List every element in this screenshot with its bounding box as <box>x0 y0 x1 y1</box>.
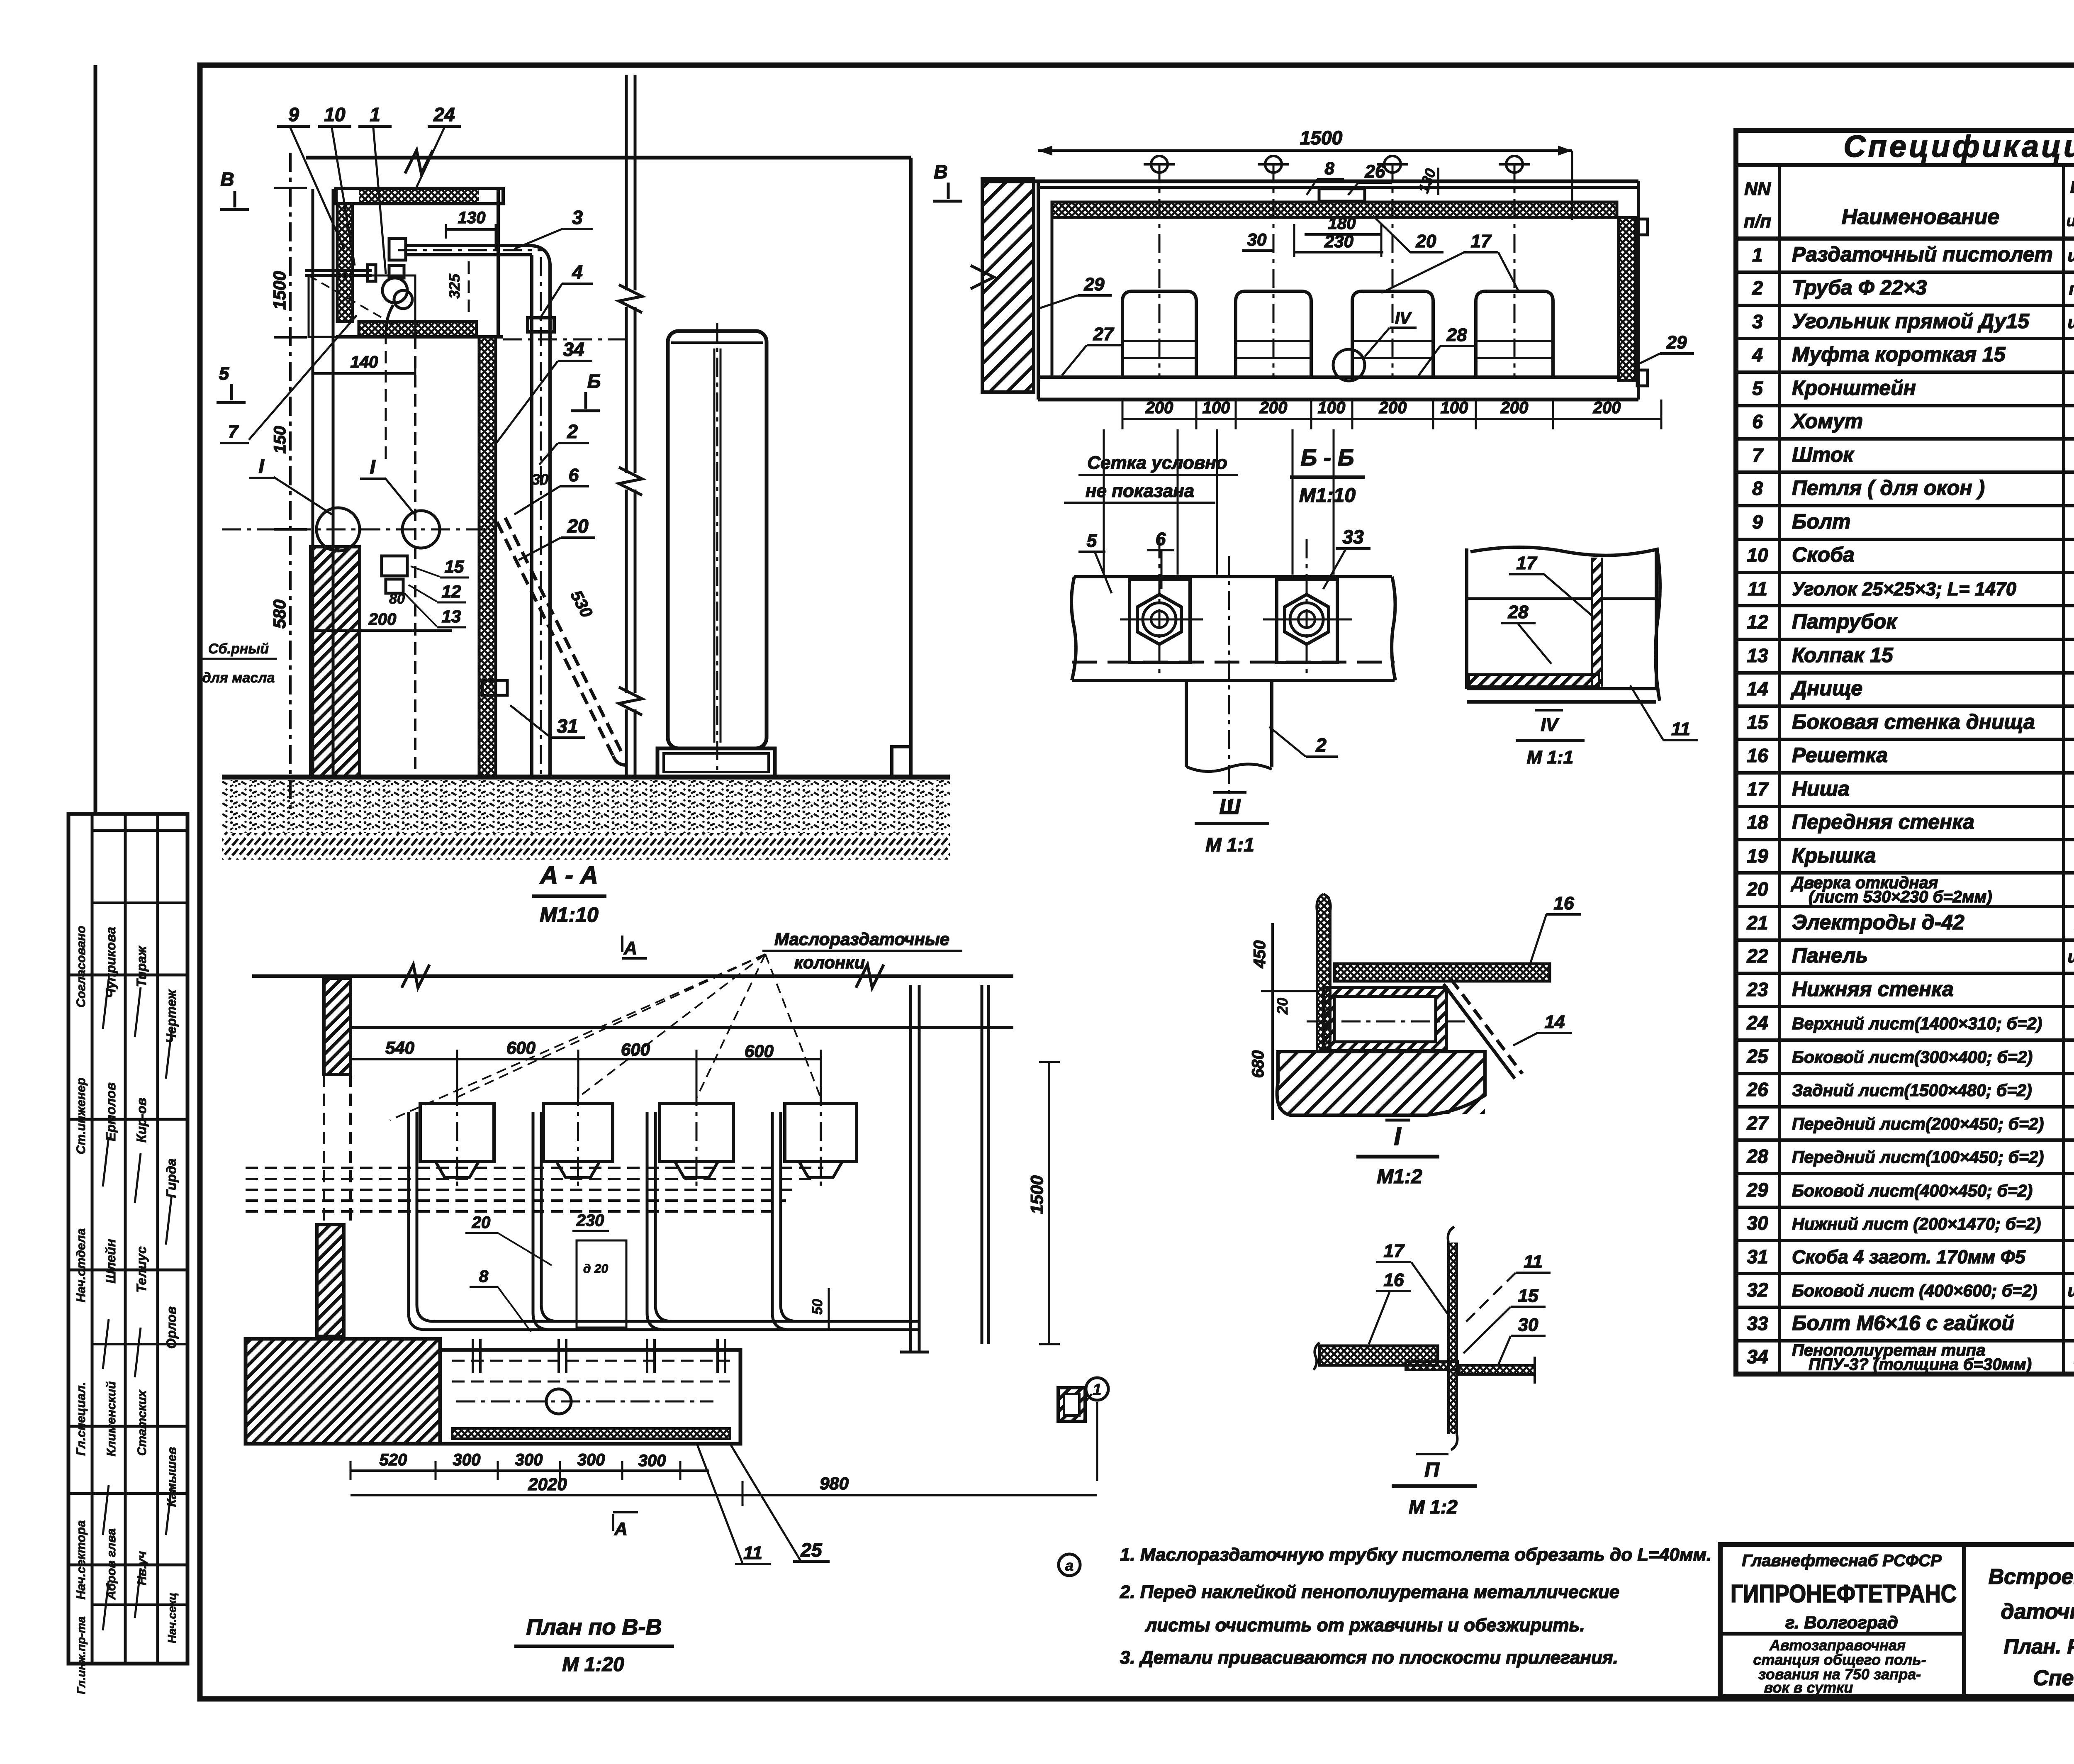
svg-text:Боковой лист (400×600; б=2): Боковой лист (400×600; б=2) <box>1792 1281 2037 1300</box>
A-A top insulated band 24 <box>359 188 479 204</box>
svg-text:NN: NN <box>1744 179 1771 199</box>
hinge detail 8 26 <box>1319 189 1365 201</box>
svg-text:14: 14 <box>1545 1012 1565 1032</box>
svg-text:I: I <box>1394 1122 1402 1151</box>
insulation strip 34 vertical <box>479 337 496 777</box>
svg-text:Нижний лист (200×1470; б=2): Нижний лист (200×1470; б=2) <box>1792 1214 2041 1233</box>
dim 130 <box>446 228 496 231</box>
svg-text:Сб.рный: Сб.рный <box>208 641 269 657</box>
svg-text:Ниша: Ниша <box>1792 777 1850 800</box>
svg-text:300: 300 <box>453 1451 481 1469</box>
svg-text:2. Перед наклейкой пенополиур: 2. Перед наклейкой пенополиуретана метал… <box>1120 1582 1619 1602</box>
svg-text:28: 28 <box>1446 325 1467 345</box>
svg-text:20: 20 <box>1416 231 1436 251</box>
svg-text:Телиус: Телиус <box>134 1246 149 1293</box>
small parts 15 12 13 <box>382 556 407 576</box>
svg-text:изм.: изм. <box>2067 212 2074 230</box>
svg-text:580: 580 <box>270 599 289 629</box>
spec row 28 <box>1736 1172 2074 1175</box>
svg-text:30: 30 <box>1747 1212 1768 1234</box>
svg-text:200: 200 <box>368 610 397 629</box>
plan left pier upper <box>324 978 351 1074</box>
right boundary wall <box>909 158 913 777</box>
title block <box>1720 1545 2074 1697</box>
svg-text:А - А: А - А <box>539 861 598 889</box>
svg-text:9: 9 <box>1752 511 1763 533</box>
spec row 23 <box>1736 1005 2074 1008</box>
svg-text:Нижняя стенка: Нижняя стенка <box>1792 977 1954 1001</box>
svg-text:17: 17 <box>1471 231 1492 251</box>
lower cabinet dashed wall <box>414 337 416 775</box>
svg-text:19: 19 <box>1747 845 1768 867</box>
svg-text:4: 4 <box>1752 344 1763 365</box>
spec row 24 <box>1736 1038 2074 1042</box>
node IV block <box>1470 547 1660 701</box>
rect tube profile <box>1324 987 1446 1051</box>
plan left pier lower <box>317 1225 344 1336</box>
spec row 4 <box>1736 370 2074 374</box>
svg-text:не показана: не показана <box>1086 481 1194 501</box>
ext lines cols <box>456 1070 458 1099</box>
svg-text:шт: шт <box>2068 312 2074 332</box>
A-A niche inner walls <box>351 204 354 322</box>
svg-text:Встроенный маслораз-: Встроенный маслораз- <box>1989 1565 2074 1589</box>
svg-text:Боковой лист(400×450; б=2): Боковой лист(400×450; б=2) <box>1792 1181 2033 1200</box>
svg-text:540: 540 <box>385 1038 414 1057</box>
spec row 18 <box>1736 838 2074 841</box>
svg-text:17: 17 <box>1747 778 1769 800</box>
svg-text:IV: IV <box>1395 309 1412 327</box>
spec row 7 <box>1736 470 2074 474</box>
node circles I <box>316 508 360 551</box>
spec row 10 <box>1736 571 2074 574</box>
svg-text:33: 33 <box>1342 526 1364 548</box>
svg-text:28: 28 <box>1746 1145 1768 1167</box>
svg-text:Гл.инж.пр-та: Гл.инж.пр-та <box>75 1616 88 1694</box>
svg-text:8: 8 <box>1324 158 1334 178</box>
svg-text:21: 21 <box>1746 912 1768 933</box>
svg-text:200: 200 <box>1145 399 1173 417</box>
svg-text:17: 17 <box>1517 553 1538 573</box>
svg-text:27: 27 <box>1746 1112 1769 1134</box>
spec row 25 <box>1736 1072 2074 1075</box>
svg-text:М 1:1: М 1:1 <box>1205 834 1254 855</box>
svg-text:8: 8 <box>1752 478 1763 499</box>
svg-text:300: 300 <box>638 1452 666 1470</box>
elbow fitting left <box>389 239 406 260</box>
soil hatch <box>222 833 950 860</box>
svg-text:Кронштейн: Кронштейн <box>1792 376 1916 400</box>
svg-text:100: 100 <box>1203 399 1230 417</box>
svg-text:Задний лист(1500×480; б=2): Задний лист(1500×480; б=2) <box>1792 1081 2032 1100</box>
svg-text:16: 16 <box>1384 1270 1404 1290</box>
svg-text:листы очистить от ржавчины: листы очистить от ржавчины и обезжирить. <box>1145 1615 1585 1635</box>
svg-text:1500: 1500 <box>270 271 289 309</box>
svg-text:5: 5 <box>219 363 229 384</box>
bottom strip hatched <box>1469 675 1599 687</box>
svg-text:Орлов: Орлов <box>164 1306 179 1349</box>
svg-text:Панель: Панель <box>1792 944 1868 967</box>
B-B top insulation band 20 <box>1052 202 1617 217</box>
svg-text:Передний лист(200×450; б=2): Передний лист(200×450; б=2) <box>1792 1114 2044 1133</box>
B-B right insulation column <box>1619 217 1636 380</box>
svg-text:600: 600 <box>745 1041 774 1061</box>
svg-text:30: 30 <box>1247 230 1267 249</box>
oil columns <box>420 1104 494 1162</box>
svg-text:Маслораздаточные: Маслораздаточные <box>774 929 949 949</box>
specification table <box>1736 130 2074 1374</box>
dim 1500 vertical <box>1048 1062 1050 1344</box>
spec row 9 <box>1736 538 2074 541</box>
spec row 19 <box>1736 871 2074 875</box>
svg-text:300: 300 <box>577 1451 605 1469</box>
svg-text:680: 680 <box>1249 1050 1267 1078</box>
svg-text:15: 15 <box>445 557 464 576</box>
svg-text:29: 29 <box>1746 1179 1768 1201</box>
svg-text:27: 27 <box>1093 324 1115 344</box>
svg-text:Нач.секц: Нач.секц <box>166 1593 178 1643</box>
svg-text:6: 6 <box>1156 529 1166 549</box>
svg-text:г. Волгоград: г. Волгоград <box>1785 1613 1898 1632</box>
node III plate <box>1071 577 1076 680</box>
right wall lines <box>909 985 912 1352</box>
svg-text:Кир-ов: Кир-ов <box>134 1098 149 1143</box>
leader fan <box>457 954 765 1097</box>
svg-text:Болт М6×16 с гайкой: Болт М6×16 с гайкой <box>1792 1311 2014 1335</box>
dim 2020 / 980 <box>351 1494 742 1496</box>
svg-text:Боковая стенка днища: Боковая стенка днища <box>1792 710 2035 733</box>
plan floor slab hatched <box>246 1339 440 1444</box>
svg-text:50: 50 <box>810 1299 825 1315</box>
riser pipes to columns <box>409 1112 425 1330</box>
svg-text:9: 9 <box>288 104 299 125</box>
svg-text:п.м: п.м <box>2069 279 2074 298</box>
svg-text:IV: IV <box>1541 715 1559 735</box>
svg-text:20: 20 <box>472 1213 491 1232</box>
svg-text:13: 13 <box>442 607 461 626</box>
svg-text:200: 200 <box>1593 399 1621 417</box>
svg-text:80: 80 <box>389 591 405 607</box>
ground stipple <box>222 780 950 833</box>
svg-text:Б - Б: Б - Б <box>1300 444 1354 470</box>
svg-text:д 20: д 20 <box>583 1262 609 1276</box>
svg-text:План. Разрезы. Узлы.: План. Разрезы. Узлы. <box>2003 1635 2074 1658</box>
svg-text:200: 200 <box>1379 399 1407 417</box>
base hatched block <box>1278 1052 1485 1114</box>
svg-text:15: 15 <box>1747 711 1769 733</box>
dash line to riser <box>503 339 626 341</box>
svg-text:М1:10: М1:10 <box>1299 485 1356 507</box>
signature stamp column <box>68 814 187 1664</box>
node II strip 30 <box>1459 1365 1535 1374</box>
dim 200 / 80 <box>311 629 452 632</box>
svg-text:30: 30 <box>532 471 548 488</box>
svg-text:26: 26 <box>1365 161 1385 182</box>
svg-text:Главнефтеснаб РСФСР: Главнефтеснаб РСФСР <box>1742 1552 1942 1570</box>
svg-text:Статских: Статских <box>135 1390 149 1456</box>
svg-text:Спецификация: Спецификация <box>1843 129 2074 163</box>
weld post <box>1317 896 1330 1051</box>
svg-text:25: 25 <box>1746 1045 1769 1067</box>
svg-text:450: 450 <box>1251 940 1269 969</box>
svg-text:20: 20 <box>1746 878 1768 900</box>
svg-text:20: 20 <box>567 515 589 537</box>
svg-text:А: А <box>623 938 637 958</box>
svg-text:Болт: Болт <box>1792 510 1851 533</box>
svg-text:Чуприкова: Чуприкова <box>103 927 118 998</box>
svg-text:1500: 1500 <box>1300 127 1343 149</box>
spec row 14 <box>1736 704 2074 708</box>
svg-text:Петля ( для окон ): Петля ( для окон ) <box>1792 476 1985 499</box>
B-B outer box <box>982 180 1638 183</box>
svg-text:шт: шт <box>2068 246 2074 265</box>
svg-text:Нач.сектора: Нач.сектора <box>74 1520 88 1599</box>
svg-text:130: 130 <box>458 209 486 227</box>
svg-text:26: 26 <box>1746 1079 1768 1100</box>
buffet box <box>440 1350 740 1444</box>
svg-text:Гл.специал.: Гл.специал. <box>74 1382 88 1456</box>
svg-text:600: 600 <box>621 1040 650 1059</box>
svg-text:Шлейн: Шлейн <box>103 1239 118 1283</box>
svg-text:1: 1 <box>1093 1381 1101 1399</box>
svg-text:1500: 1500 <box>1027 1175 1047 1214</box>
hex nut left <box>1137 594 1181 644</box>
svg-text:13: 13 <box>1747 645 1768 666</box>
svg-text:Решетка: Решетка <box>1792 743 1888 767</box>
svg-text:Передняя стенка: Передняя стенка <box>1792 810 1974 833</box>
left trim line <box>94 65 97 814</box>
skoba bracket <box>482 680 507 695</box>
svg-text:Скоба 4 загот. 170мм Ф5: Скоба 4 загот. 170мм Ф5 <box>1792 1246 2026 1267</box>
svg-text:Шток: Шток <box>1792 443 1855 466</box>
svg-text:Передний лист(100×450; б=2): Передний лист(100×450; б=2) <box>1792 1148 2044 1167</box>
node I dim line <box>1271 923 1274 1120</box>
door swing dashed box <box>309 275 415 337</box>
svg-text:ППУ-3? (толщина б=30мм): ППУ-3? (толщина б=30мм) <box>1809 1355 2032 1374</box>
svg-text:М 1:1: М 1:1 <box>1527 747 1573 767</box>
svg-text:Верхний лист(1400×310; б=2): Верхний лист(1400×310; б=2) <box>1792 1014 2042 1033</box>
pipe elbow right down <box>532 246 550 266</box>
svg-text:6: 6 <box>1752 411 1763 432</box>
svg-text:6: 6 <box>569 465 579 485</box>
svg-text:100: 100 <box>1318 399 1346 417</box>
svg-text:Сетка условно: Сетка условно <box>1087 453 1227 473</box>
svg-text:11: 11 <box>743 1543 762 1563</box>
dashed pipe bundle <box>246 1167 823 1169</box>
svg-text:16: 16 <box>1554 893 1574 914</box>
svg-text:5: 5 <box>1087 531 1097 551</box>
circled a <box>1059 1554 1080 1576</box>
dim 1500 B-B <box>1038 149 1572 152</box>
spec row 6 <box>1736 437 2074 441</box>
svg-text:12: 12 <box>442 582 461 601</box>
pipe 3 horizontal <box>404 244 532 247</box>
pipe stubs into box <box>472 1339 474 1373</box>
svg-text:Ермолов: Ермолов <box>103 1082 118 1141</box>
svg-text:325: 325 <box>446 273 463 299</box>
section cut line with breaks <box>625 75 628 290</box>
svg-text:100: 100 <box>1441 399 1468 417</box>
spec row 8 <box>1736 504 2074 507</box>
svg-text:11: 11 <box>1671 719 1690 739</box>
svg-text:20: 20 <box>1274 998 1291 1015</box>
svg-text:18: 18 <box>1747 811 1768 833</box>
B-B left wall hatched <box>982 178 1034 392</box>
svg-text:33: 33 <box>1747 1313 1768 1334</box>
svg-text:для масла: для масла <box>202 670 275 686</box>
svg-text:Ст.инженер: Ст.инженер <box>74 1078 88 1155</box>
svg-text:11: 11 <box>1524 1252 1543 1272</box>
svg-text:вок в сутки: вок в сутки <box>1764 1679 1853 1696</box>
svg-text:М 1:2: М 1:2 <box>1409 1496 1458 1518</box>
svg-text:22: 22 <box>1746 945 1768 967</box>
svg-text:I: I <box>258 456 265 478</box>
spec row 3 <box>1736 337 2074 340</box>
svg-text:4: 4 <box>572 261 583 283</box>
svg-text:10: 10 <box>1747 544 1768 566</box>
svg-text:25: 25 <box>800 1539 823 1561</box>
svg-text:150: 150 <box>271 426 289 454</box>
spec row 29 <box>1736 1206 2074 1209</box>
spec row 2 <box>1736 304 2074 307</box>
svg-text:В: В <box>220 168 234 190</box>
node II step <box>1406 1362 1458 1370</box>
dim 50 <box>828 1288 830 1330</box>
svg-text:Крышка: Крышка <box>1792 844 1876 867</box>
manifold <box>425 1328 919 1331</box>
svg-text:2020: 2020 <box>528 1474 567 1494</box>
svg-text:5: 5 <box>1752 378 1763 399</box>
svg-text:980: 980 <box>820 1474 849 1493</box>
diagonal drain pipe 530 <box>497 522 613 756</box>
svg-text:шт: шт <box>2068 947 2074 966</box>
bolt clamp plates <box>1130 580 1190 663</box>
svg-text:Раздаточный пистолет: Раздаточный пистолет <box>1792 243 2053 266</box>
dim line 1500/150/580 <box>289 153 292 813</box>
spec row 13 <box>1736 671 2074 675</box>
coupling 4 <box>528 318 554 332</box>
svg-text:М1:10: М1:10 <box>540 903 599 926</box>
spec row 11 <box>1736 604 2074 607</box>
node II sheet 16 <box>1319 1346 1438 1365</box>
svg-text:Камышев: Камышев <box>165 1447 179 1507</box>
svg-text:32: 32 <box>1747 1279 1768 1301</box>
top sheet 16 <box>1334 964 1550 981</box>
svg-text:Спецификация.: Спецификация. <box>2033 1666 2074 1690</box>
spec row 32 <box>1736 1306 2074 1309</box>
svg-text:200: 200 <box>1259 399 1288 417</box>
svg-text:28: 28 <box>1508 602 1529 622</box>
riser pipe 2 <box>530 261 533 775</box>
svg-text:600: 600 <box>506 1038 536 1057</box>
svg-text:Муфта короткая 15: Муфта короткая 15 <box>1792 343 2006 366</box>
dispensing gun 1 <box>389 266 404 278</box>
spec row 12 <box>1736 638 2074 641</box>
svg-text:14: 14 <box>1747 678 1768 699</box>
svg-text:Патрубок: Патрубок <box>1792 610 1898 633</box>
svg-text:34: 34 <box>563 339 584 360</box>
diagonal sheet 14 <box>1444 984 1515 1079</box>
circled 1 <box>1086 1378 1108 1400</box>
svg-text:7: 7 <box>228 422 239 442</box>
svg-text:Боковой лист(300×400; б=2): Боковой лист(300×400; б=2) <box>1792 1048 2033 1067</box>
svg-text:Уголок 25×25×3; L= 1470: Уголок 25×25×3; L= 1470 <box>1792 578 2016 599</box>
spec row 21 <box>1736 938 2074 942</box>
svg-text:1: 1 <box>370 104 380 125</box>
floor line <box>222 775 950 780</box>
svg-text:3: 3 <box>1752 311 1763 332</box>
svg-text:I: I <box>370 456 376 478</box>
node square a <box>1058 1388 1085 1421</box>
svg-text:140: 140 <box>351 353 378 371</box>
spec row 17 <box>1736 805 2074 808</box>
svg-text:Клименский: Клименский <box>105 1381 118 1457</box>
svg-text:Электроды д-42: Электроды д-42 <box>1792 911 1964 934</box>
svg-text:а: а <box>1065 1557 1074 1574</box>
svg-text:31: 31 <box>1747 1246 1768 1267</box>
plan top wall lines <box>252 975 1013 978</box>
wall face lines <box>312 189 314 777</box>
svg-text:2: 2 <box>1752 277 1763 299</box>
svg-text:Тираж: Тираж <box>134 945 149 987</box>
svg-text:16: 16 <box>1747 745 1768 766</box>
spec row 16 <box>1736 771 2074 775</box>
svg-text:11: 11 <box>1748 578 1767 599</box>
svg-text:Ш: Ш <box>1220 795 1241 819</box>
node II post <box>1448 1243 1457 1434</box>
svg-text:Колпак 15: Колпак 15 <box>1792 643 1894 667</box>
svg-text:29: 29 <box>1666 332 1687 353</box>
svg-text:31: 31 <box>557 715 578 737</box>
dim 130 vertical <box>1437 168 1439 195</box>
svg-text:Б: Б <box>587 370 601 392</box>
svg-text:200: 200 <box>1500 399 1529 417</box>
svg-text:23: 23 <box>1746 979 1768 1000</box>
spec row 26 <box>1736 1105 2074 1109</box>
spec row 30 <box>1736 1239 2074 1242</box>
svg-text:Наименование: Наименование <box>1842 205 2000 229</box>
svg-text:15: 15 <box>1518 1286 1538 1306</box>
svg-text:2: 2 <box>1315 734 1327 756</box>
svg-text:Нач.отдела: Нач.отдела <box>74 1228 88 1303</box>
spec row 15 <box>1736 738 2074 741</box>
svg-text:180: 180 <box>1328 214 1356 233</box>
svg-text:520: 520 <box>380 1451 407 1469</box>
svg-text:Скоба: Скоба <box>1792 543 1855 566</box>
svg-text:Труба Ф 22×3: Труба Ф 22×3 <box>1792 276 1927 299</box>
svg-text:12: 12 <box>1747 611 1768 633</box>
dim 140 <box>313 372 415 375</box>
node IV circle <box>1333 349 1365 381</box>
svg-text:М1:2: М1:2 <box>1377 1166 1422 1188</box>
B-B dim chain 200/100 <box>1122 418 1661 420</box>
spec row 33 <box>1736 1339 2074 1342</box>
svg-text:даточный буфет.: даточный буфет. <box>2001 1600 2074 1624</box>
svg-text:Днище: Днище <box>1790 677 1862 700</box>
svg-text:34: 34 <box>1747 1346 1768 1367</box>
svg-text:1: 1 <box>1752 244 1763 266</box>
svg-text:Гирда: Гирда <box>164 1158 179 1198</box>
svg-text:29: 29 <box>1084 274 1105 295</box>
section A-A ceiling line <box>306 156 911 160</box>
spec row 20 <box>1736 905 2074 908</box>
spec row 31 <box>1736 1272 2074 1275</box>
B-B niches 17 <box>1122 291 1196 377</box>
svg-text:Согласовано: Согласовано <box>74 926 88 1007</box>
spec row 27 <box>1736 1138 2074 1142</box>
A-A bottom band of niche <box>359 322 477 337</box>
niche wall hatched strip <box>1592 558 1602 687</box>
